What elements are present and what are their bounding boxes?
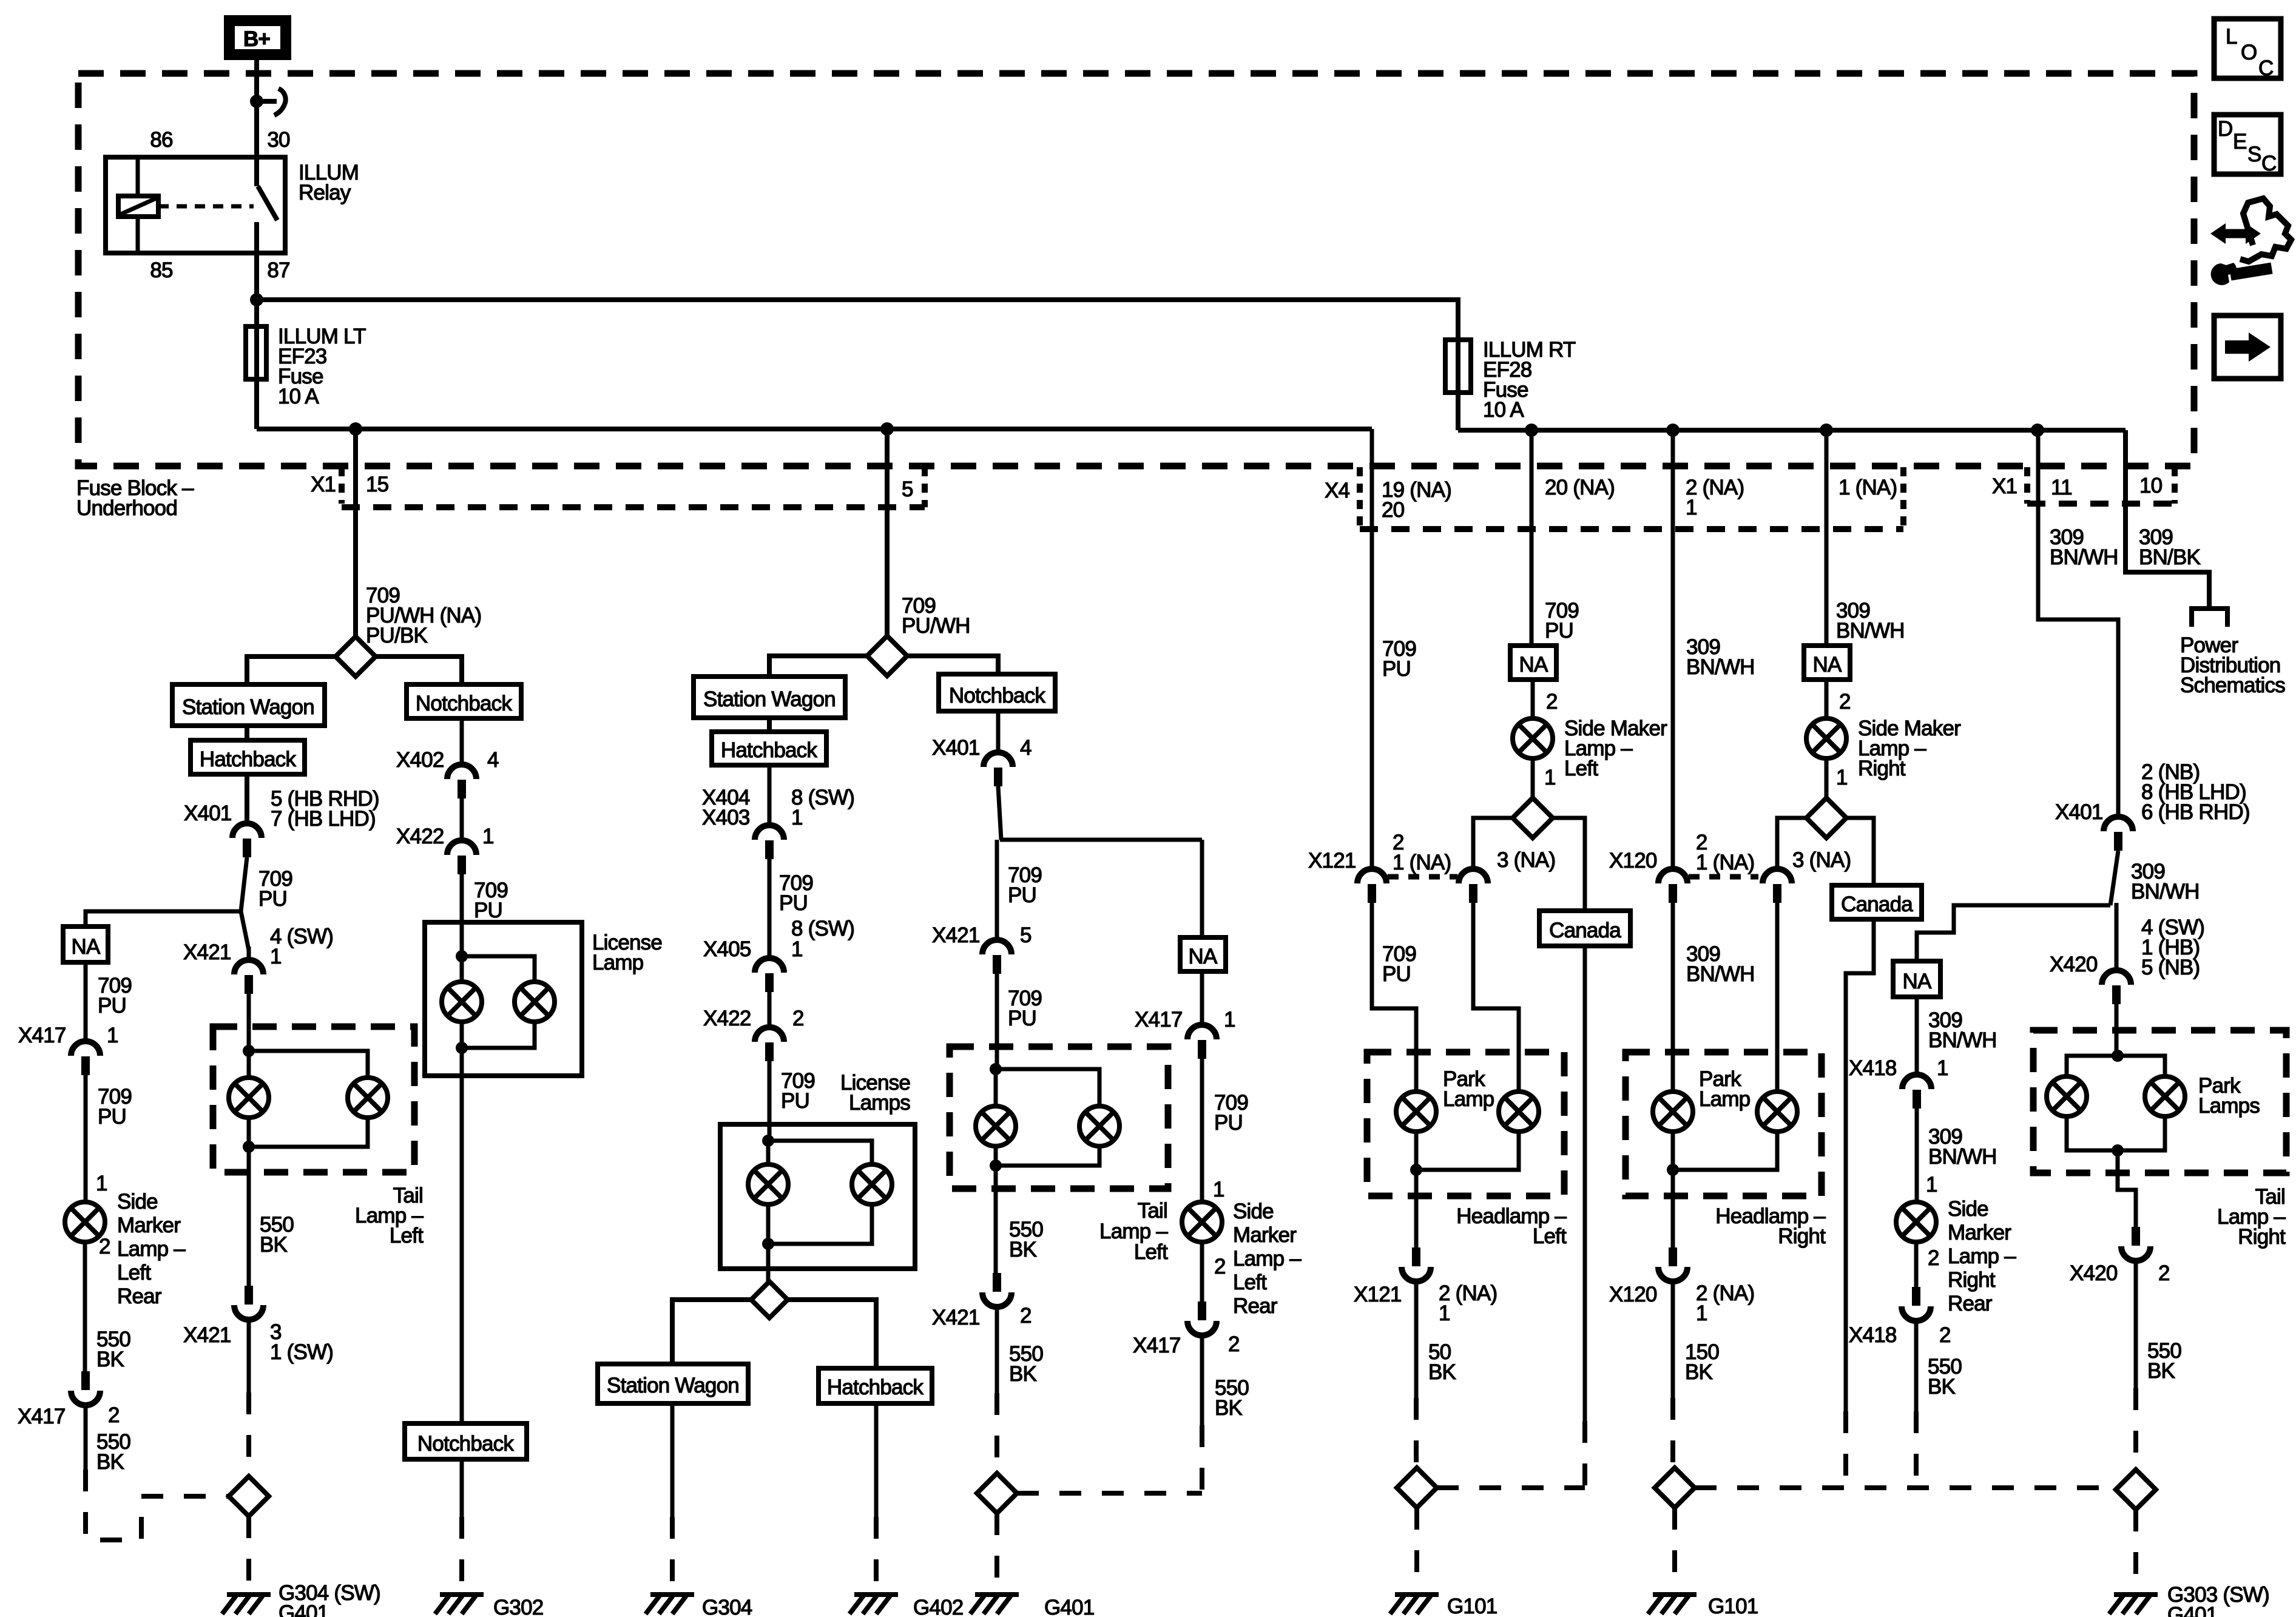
svg-text:1: 1 bbox=[1926, 1173, 1937, 1197]
svg-text:X422: X422 bbox=[396, 825, 444, 848]
ground G402 bbox=[849, 1595, 898, 1614]
svg-text:Lamp: Lamp bbox=[592, 951, 643, 974]
svg-text:Lamps: Lamps bbox=[2198, 1094, 2260, 1118]
ground G101 right bbox=[1648, 1595, 1697, 1614]
wire label 709 PU bbox=[1214, 1091, 1248, 1135]
svg-text:Canada: Canada bbox=[1549, 919, 1621, 942]
wire tail lamp internal bottom bus bbox=[249, 1117, 368, 1147]
pin 8 (SW) 1 label bbox=[791, 917, 854, 961]
svg-text:10 A: 10 A bbox=[1483, 398, 1524, 422]
lamp side maker right bbox=[1806, 718, 1846, 758]
svg-text:2: 2 bbox=[1214, 1255, 1226, 1278]
svg-text:Side: Side bbox=[117, 1190, 158, 1214]
wire dashed return to splice bbox=[86, 1470, 229, 1540]
svg-text:Station Wagon: Station Wagon bbox=[182, 695, 314, 719]
wire dashed to ground bbox=[670, 1517, 675, 1591]
svg-text:Lamp –: Lamp – bbox=[1233, 1247, 1302, 1271]
svg-text:BK: BK bbox=[2147, 1359, 2175, 1383]
connector X121 pin 2 (NA) bbox=[1402, 1247, 1431, 1281]
svg-text:2: 2 bbox=[1839, 690, 1851, 714]
node: junction X4-2 branch bbox=[1666, 424, 1680, 437]
wire 709 PU to X417 bbox=[84, 962, 88, 1041]
hatchback option box lower bbox=[819, 1368, 932, 1403]
svg-text:2: 2 bbox=[1228, 1332, 1240, 1356]
svg-text:BN/WH: BN/WH bbox=[2050, 545, 2118, 569]
wire label 709 PU bbox=[1008, 987, 1042, 1030]
pin 3 1 (SW) label bbox=[270, 1320, 333, 1364]
in-line connector hook symbol bbox=[260, 89, 286, 115]
wire park lamp bottom bus bbox=[1416, 1131, 1519, 1170]
wire dashed to splice bbox=[246, 1393, 251, 1476]
node: junction top bus bbox=[2112, 1050, 2124, 1062]
wire to hatchback ground branch bbox=[788, 1300, 876, 1368]
pin 4 (SW) 1 (HB) 5 (NB) label bbox=[2141, 916, 2204, 979]
wire label 550 BK bbox=[1009, 1342, 1043, 1386]
svg-text:BK: BK bbox=[96, 1450, 124, 1474]
wire dashed to splice bbox=[1414, 1398, 1419, 1468]
pin 4 (SW) 1 label bbox=[270, 925, 333, 968]
svg-text:BN/BK: BN/BK bbox=[2139, 545, 2200, 569]
wire label 309 BN/WH bbox=[1686, 635, 1755, 679]
wire to ILLUM RT fuse bbox=[257, 300, 1458, 430]
svg-text:X417: X417 bbox=[1135, 1008, 1183, 1031]
node: junction top bus bbox=[243, 1045, 255, 1057]
ground label G303 (SW) G401 bbox=[2167, 1583, 2269, 1617]
wire below X401 right bbox=[2110, 851, 2118, 970]
node: junction license top bbox=[762, 1135, 774, 1147]
svg-text:BN/WH: BN/WH bbox=[1686, 655, 1755, 679]
svg-text:BK: BK bbox=[96, 1348, 124, 1371]
wire to canada branch bbox=[1553, 818, 1585, 911]
svg-text:X417: X417 bbox=[18, 1405, 66, 1428]
svg-text:6 (HB RHD): 6 (HB RHD) bbox=[2141, 800, 2250, 824]
svg-text:BK: BK bbox=[1928, 1375, 1956, 1399]
svg-text:7 (HB LHD): 7 (HB LHD) bbox=[271, 807, 376, 831]
svg-text:PU/BK: PU/BK bbox=[366, 624, 427, 647]
wire to X402 bbox=[460, 718, 464, 765]
svg-text:4: 4 bbox=[1020, 736, 1032, 760]
svg-text:X421: X421 bbox=[183, 940, 231, 964]
wire label 709 PU/WH (NA) PU/BK bbox=[366, 584, 481, 647]
svg-text:PU: PU bbox=[98, 994, 126, 1018]
connector X417 bbox=[71, 1041, 100, 1075]
svg-text:2: 2 bbox=[99, 1235, 110, 1258]
wire lamp to splice bbox=[1825, 758, 1829, 798]
station wagon option box lower bbox=[598, 1364, 748, 1403]
svg-text:L: L bbox=[2226, 25, 2237, 49]
wire between option boxes bbox=[767, 718, 772, 732]
svg-text:2: 2 bbox=[108, 1403, 120, 1427]
relay switch contact 87 bbox=[254, 222, 259, 253]
connector X4 band bottom bbox=[1360, 526, 1903, 532]
node: junction X1-15 branch bbox=[349, 422, 362, 436]
node: ground splice diamond bbox=[1397, 1468, 1437, 1508]
park lamps label bbox=[2198, 1074, 2260, 1118]
wire label 709 PU bbox=[474, 879, 508, 922]
svg-text:Hatchback: Hatchback bbox=[721, 738, 817, 762]
wire below X401 bbox=[997, 786, 1001, 940]
wire 709 PU to side marker bbox=[84, 1075, 88, 1203]
wire EF28 output bus bbox=[1458, 428, 2125, 433]
node: junction bottom bus bbox=[2112, 1144, 2124, 1156]
svg-text:X418: X418 bbox=[1849, 1323, 1897, 1347]
wire label 309 BN/WH bbox=[1928, 1008, 1997, 1052]
pin 2 (NA) 1 label bbox=[1439, 1281, 1497, 1325]
wire X1 pin 10 feed bbox=[2125, 430, 2209, 609]
svg-text:X401: X401 bbox=[2055, 800, 2103, 824]
svg-text:PU: PU bbox=[258, 887, 287, 911]
wire tail lamp internal bottom bus bbox=[996, 1146, 1099, 1166]
canada option box bbox=[1539, 911, 1630, 946]
tail lamp right label bbox=[2217, 1185, 2286, 1249]
connector X404 X403 name label bbox=[702, 786, 750, 829]
wire 709 PU from X4-19 bbox=[1370, 429, 1374, 869]
connector X401 pin 4 bbox=[984, 752, 1013, 786]
wire label 550 BK bbox=[96, 1430, 130, 1474]
station wagon option box bbox=[694, 677, 845, 718]
svg-text:Schematics: Schematics bbox=[2180, 673, 2285, 697]
wire label 709 PU bbox=[258, 867, 292, 911]
wire 150 BK below bbox=[1671, 1282, 1675, 1398]
wire dashed to ground bbox=[1414, 1508, 1419, 1591]
wire to X401 bbox=[245, 774, 249, 823]
wire label 309 BN/WH bbox=[1686, 942, 1755, 986]
svg-text:Notchback: Notchback bbox=[416, 692, 512, 715]
svg-text:10 A: 10 A bbox=[278, 385, 319, 408]
lamp side marker left rear bbox=[65, 1202, 105, 1242]
connector X421 pin 5 bbox=[982, 940, 1011, 974]
connector X420 bbox=[2102, 970, 2131, 1004]
wire 709 PU to side marker bbox=[1200, 1059, 1204, 1203]
wire 309 BN/WH from X4-1 bbox=[1825, 430, 1829, 646]
svg-text:Underhood: Underhood bbox=[76, 496, 177, 520]
connector X422 bbox=[447, 840, 476, 874]
pin 8 (SW) 1 label bbox=[791, 786, 854, 829]
svg-text:Lamp –: Lamp – bbox=[117, 1237, 186, 1261]
wire to bottom splice bbox=[766, 1244, 771, 1282]
wire label 550 BK bbox=[1928, 1355, 1962, 1399]
wire label 550 BK bbox=[1009, 1218, 1043, 1261]
svg-text:1: 1 bbox=[791, 937, 803, 961]
node: splice diamond bottom bbox=[751, 1281, 788, 1318]
LOC legend box bbox=[2214, 19, 2281, 80]
svg-text:X420: X420 bbox=[2050, 953, 2098, 976]
ground G304 (SW) G401 bbox=[222, 1595, 271, 1614]
svg-text:C: C bbox=[2258, 56, 2273, 80]
svg-text:Rear: Rear bbox=[117, 1284, 162, 1308]
NA option box bbox=[1804, 646, 1850, 680]
svg-text:BK: BK bbox=[1009, 1362, 1037, 1386]
svg-text:X418: X418 bbox=[1849, 1056, 1897, 1080]
svg-text:Lamp: Lamp bbox=[1443, 1087, 1494, 1111]
svg-text:PU/WH: PU/WH bbox=[902, 614, 970, 638]
headlamp right label bbox=[1715, 1204, 1826, 1248]
svg-text:X417: X417 bbox=[1133, 1334, 1181, 1357]
svg-text:1: 1 bbox=[1213, 1178, 1224, 1201]
wire dashed to splice bbox=[2133, 1388, 2138, 1470]
lamp tail left bulb 1 bbox=[229, 1078, 269, 1118]
svg-text:X120: X120 bbox=[1609, 1283, 1657, 1306]
svg-text:X121: X121 bbox=[1354, 1283, 1402, 1306]
svg-text:2: 2 bbox=[792, 1007, 804, 1030]
wire 709 PU from X4-20 bbox=[1530, 430, 1534, 646]
connector X402 bbox=[447, 765, 476, 798]
svg-text:1: 1 bbox=[1686, 496, 1697, 519]
svg-text:S: S bbox=[2247, 143, 2261, 166]
svg-text:3 (NA): 3 (NA) bbox=[1497, 848, 1555, 872]
node: junction park bottom bbox=[1667, 1164, 1679, 1176]
wire 550 BK out of park lamps bbox=[2118, 1150, 2136, 1227]
wire 309 BN/WH from X4-2 bbox=[1671, 430, 1675, 869]
svg-text:X401: X401 bbox=[184, 802, 232, 825]
wire label 709 PU bbox=[1382, 942, 1416, 986]
wire tail lamp internal top bus bbox=[249, 1051, 368, 1078]
connector X417 pin 1 bbox=[1187, 1025, 1217, 1059]
wire to X401 bbox=[996, 711, 1001, 752]
connector X1 right band bottom bbox=[2027, 501, 2175, 507]
svg-text:X422: X422 bbox=[703, 1007, 751, 1030]
wire 709 PU into tail lamp bbox=[995, 974, 999, 1069]
wire 550 BK below X421-2 bbox=[995, 1308, 999, 1393]
ground G401 bbox=[970, 1595, 1019, 1614]
canada option box bbox=[1832, 885, 1922, 919]
svg-text:1: 1 bbox=[1224, 1008, 1235, 1031]
svg-text:2: 2 bbox=[1020, 1304, 1032, 1328]
wire 709 PU/WH from X1-5 bbox=[885, 429, 890, 636]
tail lamp left label bbox=[1099, 1199, 1168, 1264]
connector X4 right separator bbox=[1900, 467, 1906, 529]
wire 309 BN/WH from X1-11 bbox=[2038, 430, 2118, 817]
wire label 709 PU bbox=[1382, 637, 1416, 681]
svg-text:2: 2 bbox=[1546, 690, 1558, 714]
svg-text:BK: BK bbox=[1685, 1360, 1713, 1384]
hand with arrow and wrench icon bbox=[2210, 198, 2291, 285]
svg-text:X120: X120 bbox=[1609, 849, 1657, 873]
wire label 550 BK bbox=[2147, 1339, 2181, 1383]
side maker lamp left label bbox=[1564, 717, 1667, 780]
svg-text:NA: NA bbox=[1812, 653, 1842, 677]
pin 5 (HB RHD) 7 (HB LHD) label bbox=[271, 787, 379, 831]
wire into park lamps right bbox=[2115, 1004, 2119, 1056]
svg-text:Hatchback: Hatchback bbox=[827, 1376, 923, 1399]
svg-text:BN/WH: BN/WH bbox=[1928, 1145, 1997, 1169]
pin 2 1 (NA) label bbox=[1393, 831, 1451, 874]
connector X418 pin 1 bbox=[1902, 1075, 1931, 1109]
wire between option boxes bbox=[245, 726, 249, 740]
connector X121 pin 3 (NA) bbox=[1459, 869, 1488, 903]
connector X405 bbox=[755, 958, 784, 992]
wire to left bulb bbox=[994, 1069, 998, 1107]
svg-text:1: 1 bbox=[1439, 1301, 1450, 1325]
relay actuation dashed link bbox=[158, 204, 254, 209]
svg-text:PU: PU bbox=[1382, 657, 1411, 681]
wire label 709 PU bbox=[1008, 863, 1042, 907]
wire dashed to splice bbox=[1200, 1425, 1204, 1493]
node: ground splice diamond bbox=[977, 1473, 1017, 1513]
wire to X404/X403 bbox=[768, 765, 772, 825]
svg-text:Rear: Rear bbox=[1233, 1294, 1278, 1318]
lamp side marker left rear bbox=[1182, 1202, 1222, 1242]
wire notchback branch bbox=[376, 657, 462, 684]
wire license internal bottom bus bbox=[768, 1204, 872, 1244]
svg-text:86: 86 bbox=[150, 128, 172, 152]
lamp license bulb 2 bbox=[852, 1164, 892, 1204]
wire into tail lamp left bbox=[247, 994, 251, 1051]
wire 709 PU/WH from X1-15 bbox=[353, 429, 358, 636]
ground G101 left bbox=[1390, 1595, 1439, 1614]
svg-text:20 (NA): 20 (NA) bbox=[1545, 476, 1615, 499]
wire dashed splice to side marker branch bbox=[1017, 1491, 1202, 1496]
svg-text:1 (NA): 1 (NA) bbox=[1838, 476, 1897, 499]
svg-text:X421: X421 bbox=[183, 1323, 231, 1347]
svg-text:BK: BK bbox=[260, 1233, 288, 1257]
wire lamp to splice bbox=[1531, 758, 1535, 798]
relay coil bbox=[118, 196, 158, 217]
svg-text:1: 1 bbox=[96, 1172, 107, 1195]
svg-text:Marker: Marker bbox=[1233, 1223, 1297, 1247]
svg-text:PU: PU bbox=[1382, 962, 1411, 986]
node: junction park bottom bbox=[1410, 1164, 1422, 1176]
node: junction X1-5 branch bbox=[880, 422, 894, 436]
connector X421 pin 2 bbox=[982, 1273, 1011, 1307]
node: junction relay output bbox=[250, 293, 263, 306]
wire label 309 BN/WH bbox=[2050, 525, 2118, 569]
svg-text:G101: G101 bbox=[1708, 1595, 1758, 1617]
side marker lamp left rear label bbox=[117, 1190, 186, 1308]
svg-text:1: 1 bbox=[1937, 1056, 1948, 1080]
wire label 50 BK bbox=[1428, 1340, 1456, 1384]
connector X121 dashed link bbox=[1388, 874, 1457, 880]
node: splice diamond bbox=[336, 636, 376, 677]
node: splice diamond bbox=[1806, 798, 1846, 838]
svg-text:BK: BK bbox=[1009, 1238, 1037, 1261]
svg-text:X121: X121 bbox=[1308, 849, 1356, 873]
license lamp label bbox=[592, 931, 662, 974]
svg-text:30: 30 bbox=[267, 128, 290, 152]
svg-text:11: 11 bbox=[2051, 476, 2072, 499]
wire park lamps internal top bus bbox=[2067, 1056, 2165, 1077]
license lamp box bbox=[425, 922, 582, 1076]
lamp side maker left bbox=[1513, 718, 1553, 758]
svg-text:PU: PU bbox=[1008, 883, 1036, 907]
wire to left bulb bbox=[460, 956, 464, 982]
wire label 309 BN/WH bbox=[1836, 599, 1905, 643]
relay switch contact 30 bbox=[254, 157, 259, 186]
wire 709 PU below X401 bbox=[241, 857, 249, 950]
svg-text:PU: PU bbox=[781, 1089, 809, 1113]
relay coil branch wire bbox=[136, 157, 140, 253]
svg-text:5 (NB): 5 (NB) bbox=[2141, 956, 2200, 979]
lamp park bulb 1 bbox=[1396, 1092, 1436, 1132]
ground G304 bbox=[646, 1595, 694, 1614]
svg-text:5: 5 bbox=[1020, 923, 1032, 947]
node: junction top bus bbox=[990, 1063, 1002, 1075]
svg-text:10: 10 bbox=[2139, 474, 2163, 498]
side maker lamp right label bbox=[1858, 717, 1961, 780]
hatchback option box bbox=[191, 740, 305, 774]
svg-text:1: 1 bbox=[107, 1024, 118, 1047]
wire relay 87 down bbox=[254, 253, 259, 429]
svg-text:Lamp –: Lamp – bbox=[1948, 1244, 2016, 1268]
pin 2 1 (NA) label bbox=[1696, 831, 1754, 874]
wire 50 BK out bbox=[1414, 1170, 1419, 1248]
wire label 709 PU bbox=[779, 871, 813, 915]
wire park lamps internal bottom bus bbox=[2067, 1116, 2165, 1150]
wire label 550 BK bbox=[260, 1213, 294, 1257]
relay ILLUM Relay box bbox=[106, 157, 285, 253]
svg-text:1: 1 bbox=[1544, 766, 1556, 789]
node: ground splice diamond bbox=[2116, 1470, 2156, 1510]
svg-text:NA: NA bbox=[1519, 653, 1548, 677]
wire dashed to ground bbox=[2133, 1510, 2138, 1591]
svg-text:Station Wagon: Station Wagon bbox=[703, 687, 836, 711]
fuse block name label bbox=[76, 476, 194, 520]
wire B+ down to relay pin 30 bbox=[254, 60, 259, 157]
wire dashed canada to splice bbox=[1582, 1421, 1587, 1488]
node: splice diamond bbox=[1513, 798, 1553, 838]
svg-text:X403: X403 bbox=[702, 806, 750, 829]
license lamps label bbox=[840, 1071, 910, 1115]
connector X120 dashed link bbox=[1689, 874, 1758, 880]
connector X1 left right separator bbox=[922, 467, 928, 507]
wire NA to X418 bbox=[1915, 997, 1919, 1075]
svg-text:G401: G401 bbox=[2167, 1603, 2217, 1617]
lamp side marker right rear bbox=[1896, 1202, 1936, 1242]
svg-text:NA: NA bbox=[1902, 970, 1931, 993]
node: junction license top bbox=[456, 950, 468, 962]
svg-text:Lamps: Lamps bbox=[849, 1091, 910, 1115]
connector X417 pin 2 bbox=[1187, 1301, 1217, 1335]
wire label 550 BK bbox=[96, 1328, 130, 1371]
fuse EF23 label bbox=[278, 325, 366, 408]
svg-text:15: 15 bbox=[366, 473, 388, 496]
svg-text:BK: BK bbox=[1428, 1360, 1456, 1384]
wire to 3 (NA) branch bbox=[1473, 818, 1513, 869]
wire 709 PU to X405 bbox=[768, 859, 772, 958]
svg-text:BN/WH: BN/WH bbox=[1836, 619, 1905, 643]
park lamp label bbox=[1443, 1067, 1494, 1111]
side marker lamp right rear label bbox=[1948, 1197, 2016, 1315]
lamp tail left bulb 2 bbox=[348, 1078, 388, 1118]
connector X421 pin 3 bbox=[234, 1286, 263, 1320]
svg-text:1: 1 bbox=[1836, 766, 1848, 789]
svg-text:O: O bbox=[2241, 41, 2257, 64]
lamp license bulb 1 bbox=[442, 982, 482, 1022]
svg-text:G101: G101 bbox=[1447, 1595, 1497, 1617]
svg-text:4: 4 bbox=[487, 748, 499, 772]
node: junction license bottom bbox=[762, 1238, 774, 1250]
wire to 3 (NA) branch bbox=[1777, 818, 1806, 869]
ground label G304 (SW) G401 bbox=[279, 1581, 380, 1617]
wire 309 BN/WH to side marker bbox=[1915, 1109, 1919, 1203]
wire below hatchback bbox=[874, 1403, 879, 1517]
wire label 309 BN/BK bbox=[2139, 525, 2200, 569]
headlamp left dashed box bbox=[1367, 1052, 1564, 1196]
relay switch blade bbox=[258, 186, 277, 220]
svg-text:1 (NA): 1 (NA) bbox=[1696, 851, 1754, 874]
connector X417 pin 2 bbox=[71, 1371, 100, 1405]
svg-text:G402: G402 bbox=[913, 1596, 963, 1617]
svg-text:X420: X420 bbox=[2070, 1261, 2118, 1285]
wire to left bulb bbox=[247, 1051, 251, 1078]
svg-text:85: 85 bbox=[150, 258, 172, 282]
wire license internal top bus bbox=[768, 1141, 872, 1165]
off-page fork to power distribution bbox=[2192, 609, 2227, 627]
svg-text:PU: PU bbox=[98, 1105, 126, 1129]
svg-text:20: 20 bbox=[1382, 498, 1405, 522]
connector X418 pin 2 bbox=[1902, 1287, 1931, 1321]
wire label 709 PU bbox=[1545, 599, 1579, 643]
